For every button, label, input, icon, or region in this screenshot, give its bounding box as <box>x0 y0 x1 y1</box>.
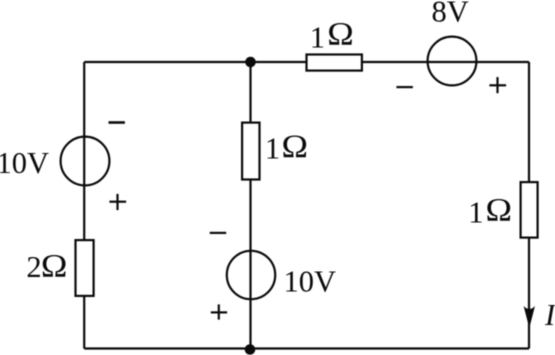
svg-text:10V: 10V <box>284 265 337 299</box>
svg-text:2: 2 <box>26 250 41 284</box>
svg-text:1: 1 <box>468 196 483 230</box>
svg-text:Ω: Ω <box>327 16 354 53</box>
svg-text:Ω: Ω <box>282 128 309 165</box>
svg-text:1: 1 <box>310 20 325 54</box>
svg-text:8V: 8V <box>432 0 469 29</box>
svg-text:I: I <box>544 298 555 332</box>
svg-text:Ω: Ω <box>41 248 68 285</box>
svg-text:1: 1 <box>265 132 280 166</box>
svg-text:Ω: Ω <box>486 191 513 228</box>
svg-text:10V: 10V <box>0 146 49 180</box>
